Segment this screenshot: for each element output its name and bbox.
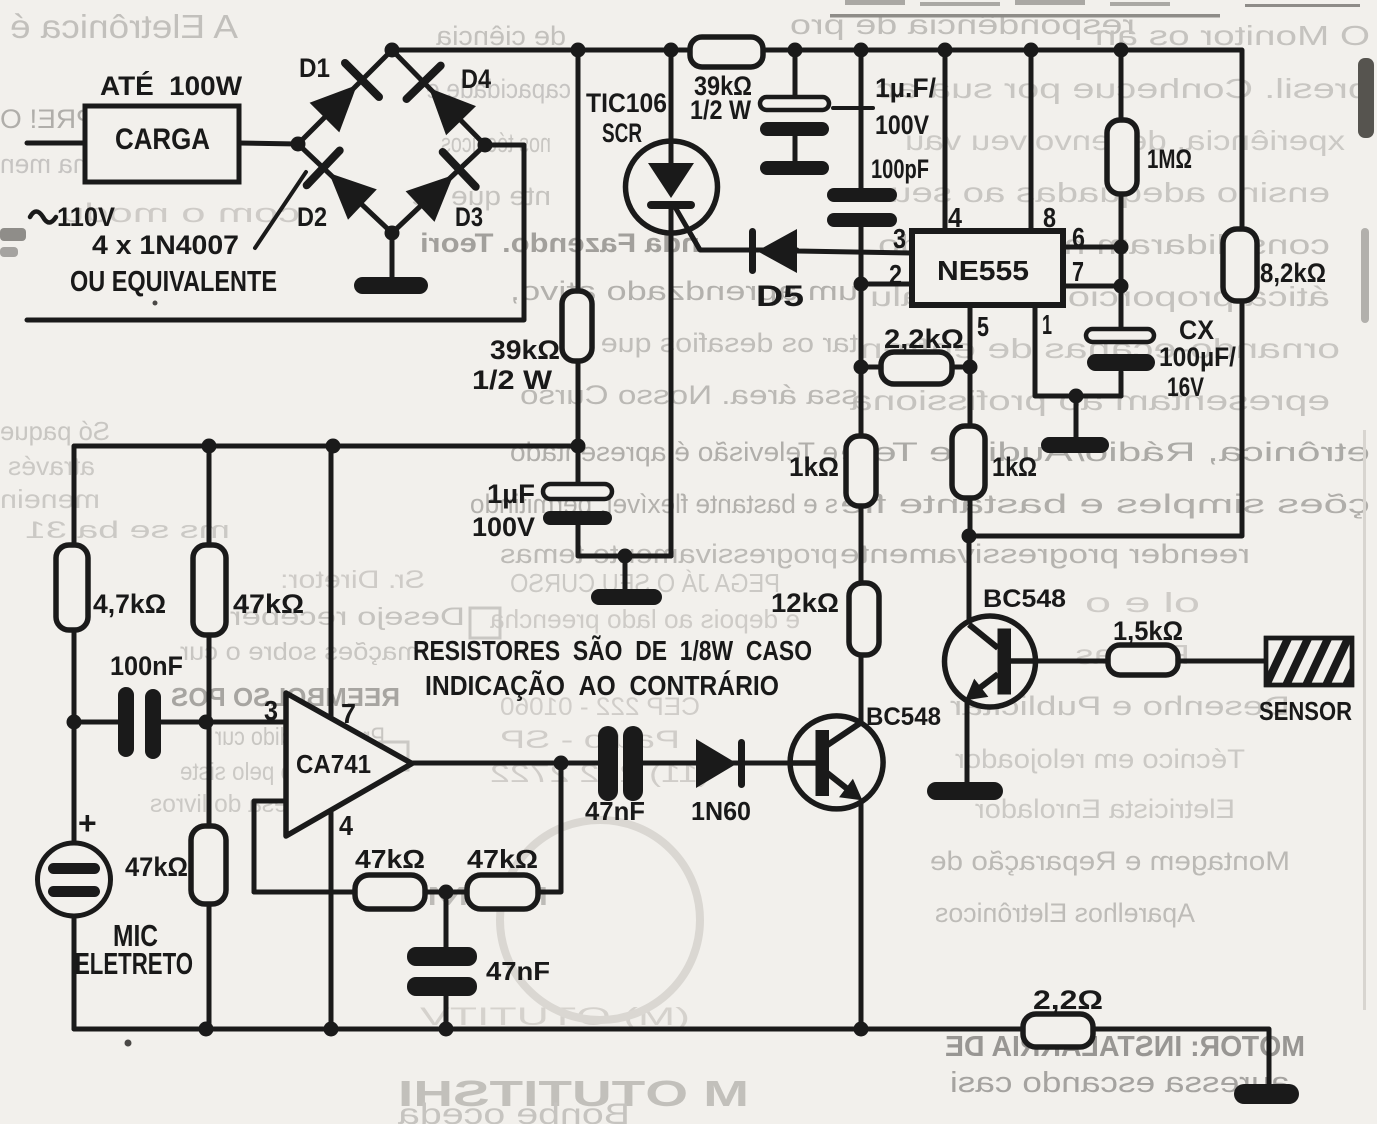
svg-text:de ciência: de ciência — [435, 21, 566, 51]
svg-text:47kΩ: 47kΩ — [233, 589, 304, 619]
svg-text:7: 7 — [341, 698, 356, 729]
svg-text:SENSOR: SENSOR — [1259, 696, 1352, 726]
svg-text:NE555: NE555 — [937, 255, 1029, 286]
svg-text:ssa área. Nosso Curso: ssa área. Nosso Curso — [520, 380, 858, 410]
svg-text:1/2 W: 1/2 W — [472, 365, 553, 395]
svg-text:D1: D1 — [299, 53, 330, 83]
svg-text:MOTOR: INSTALARRIA DE: MOTOR: INSTALARRIA DE — [945, 1031, 1305, 1063]
svg-text:1/2 W: 1/2 W — [690, 95, 751, 125]
svg-text:4: 4 — [339, 810, 353, 841]
svg-text:reender progressivamente: reender progressivamente — [840, 539, 1250, 569]
svg-text:BC548: BC548 — [866, 703, 941, 731]
svg-text:47nF: 47nF — [585, 796, 645, 826]
svg-text:e depois ao lado preencha: e depois ao lado preencha — [489, 604, 800, 634]
svg-text:1N60: 1N60 — [691, 796, 751, 826]
svg-text:7: 7 — [1072, 256, 1084, 287]
svg-text:CARGA: CARGA — [115, 123, 210, 156]
svg-text:16V: 16V — [1167, 372, 1204, 402]
svg-text:Só paque: Só paque — [0, 416, 110, 446]
svg-text:mações sobre o cur: mações sobre o cur — [180, 638, 420, 666]
svg-text:através: através — [8, 451, 95, 481]
svg-text:47kΩ: 47kΩ — [355, 844, 425, 874]
svg-text:Paulo - SP: Paulo - SP — [500, 726, 680, 754]
svg-text:CA741: CA741 — [296, 749, 371, 779]
svg-text:1MΩ: 1MΩ — [1147, 144, 1192, 174]
svg-text:1kΩ: 1kΩ — [992, 452, 1037, 482]
svg-text:ol e o: ol e o — [1085, 587, 1200, 618]
svg-text:1kΩ: 1kΩ — [789, 452, 839, 482]
svg-text:39kΩ: 39kΩ — [490, 335, 560, 365]
svg-text:O Monitor os an: O Monitor os an — [1095, 20, 1370, 51]
svg-text:6: 6 — [1072, 222, 1085, 253]
svg-text:47kΩ: 47kΩ — [467, 844, 538, 874]
svg-text:1: 1 — [1042, 309, 1052, 340]
svg-text:D4: D4 — [461, 64, 491, 94]
svg-text:RESISTORES SÃO DE 1/8W CAS: RESISTORES SÃO DE 1/8W CASO — [413, 635, 812, 666]
svg-text:epresentam ao profissiona: epresentam ao profissiona — [849, 385, 1330, 416]
svg-text:D3: D3 — [455, 202, 483, 232]
svg-text:Montagem e Reparação de: Montagem e Reparação de — [930, 846, 1290, 876]
svg-text:2,2kΩ: 2,2kΩ — [884, 324, 964, 354]
svg-text:8: 8 — [1043, 202, 1056, 233]
svg-text:Aparelhos Eletrônicos: Aparelhos Eletrônicos — [935, 898, 1195, 928]
svg-text:47kΩ: 47kΩ — [125, 852, 188, 882]
svg-text:47nF: 47nF — [486, 956, 550, 986]
svg-text:TIC106: TIC106 — [586, 88, 667, 118]
svg-text:ATÉ 100W: ATÉ 100W — [100, 70, 243, 101]
svg-text:D5: D5 — [756, 280, 804, 313]
svg-text:respondência de pro: respondência de pro — [790, 9, 1135, 40]
svg-text:100V: 100V — [875, 110, 929, 140]
svg-text:12kΩ: 12kΩ — [771, 588, 839, 618]
svg-text:INDICAÇÃO AO CONTRÁRIO: INDICAÇÃO AO CONTRÁRIO — [425, 670, 779, 701]
svg-text:CX: CX — [1179, 315, 1214, 345]
svg-text:2,2Ω: 2,2Ω — [1033, 985, 1103, 1015]
svg-text:Técnico em relojoador: Técnico em relojoador — [955, 744, 1245, 774]
svg-text:D2: D2 — [297, 202, 327, 232]
svg-text:4,7kΩ: 4,7kΩ — [93, 589, 166, 619]
svg-text:3: 3 — [264, 695, 278, 726]
svg-text:100nF: 100nF — [110, 651, 183, 681]
svg-text:tar os desafios que se: tar os desafios que se — [560, 328, 858, 358]
svg-text:1µ.F/: 1µ.F/ — [875, 73, 936, 103]
svg-text:BC548: BC548 — [983, 585, 1066, 613]
svg-text:5: 5 — [977, 311, 989, 342]
svg-text:1µF: 1µF — [487, 479, 535, 509]
svg-text:A Eletrônica é: A Eletrônica é — [10, 8, 238, 45]
svg-text:SCR: SCR — [602, 118, 642, 148]
svg-text:ções simples e bastante fle: ções simples e bastante fle — [840, 489, 1370, 519]
svg-text:ELETRETO: ELETRETO — [75, 946, 193, 981]
svg-text:1,5kΩ: 1,5kΩ — [1113, 616, 1183, 646]
svg-text:8,2kΩ: 8,2kΩ — [1260, 258, 1326, 288]
svg-text:100µF/: 100µF/ — [1159, 342, 1236, 372]
svg-text:100pF: 100pF — [871, 154, 929, 184]
svg-text:Eletricista Enrolador: Eletricista Enrolador — [975, 794, 1235, 824]
svg-text:+: + — [78, 805, 97, 841]
svg-text:2: 2 — [889, 259, 902, 290]
svg-text:Bonbe oceda: Bonbe oceda — [398, 1098, 630, 1124]
svg-text:4: 4 — [948, 202, 962, 233]
svg-text:menein: menein — [0, 484, 100, 514]
svg-text:3: 3 — [893, 223, 906, 254]
svg-text:4 x 1N4007: 4 x 1N4007 — [92, 230, 239, 260]
svg-text:OU EQUIVALENTE: OU EQUIVALENTE — [70, 266, 277, 298]
svg-text:100V: 100V — [472, 512, 535, 542]
svg-text:110V: 110V — [57, 202, 115, 232]
svg-text:ms se ba 31: ms se ba 31 — [25, 517, 230, 544]
